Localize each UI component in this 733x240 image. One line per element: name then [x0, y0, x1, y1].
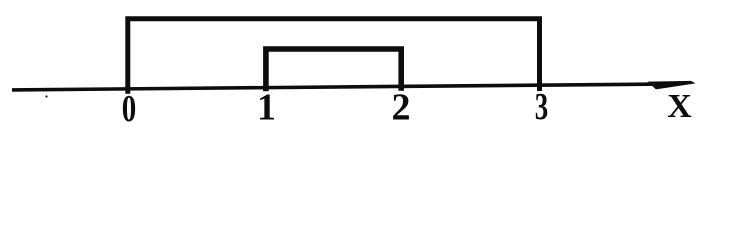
inner pulse rectangle 1 to 2: [266, 49, 401, 91]
outer pulse rectangle 0 to 3: [128, 19, 540, 94]
svg-text:2: 2: [392, 87, 411, 129]
svg-text:0: 0: [122, 88, 137, 130]
svg-text:1: 1: [257, 87, 276, 129]
ink speck: [45, 95, 47, 97]
axis arrowhead: [648, 81, 696, 90]
x-axis: [12, 84, 662, 90]
svg-text:X: X: [667, 88, 692, 125]
svg-text:3: 3: [535, 86, 549, 128]
